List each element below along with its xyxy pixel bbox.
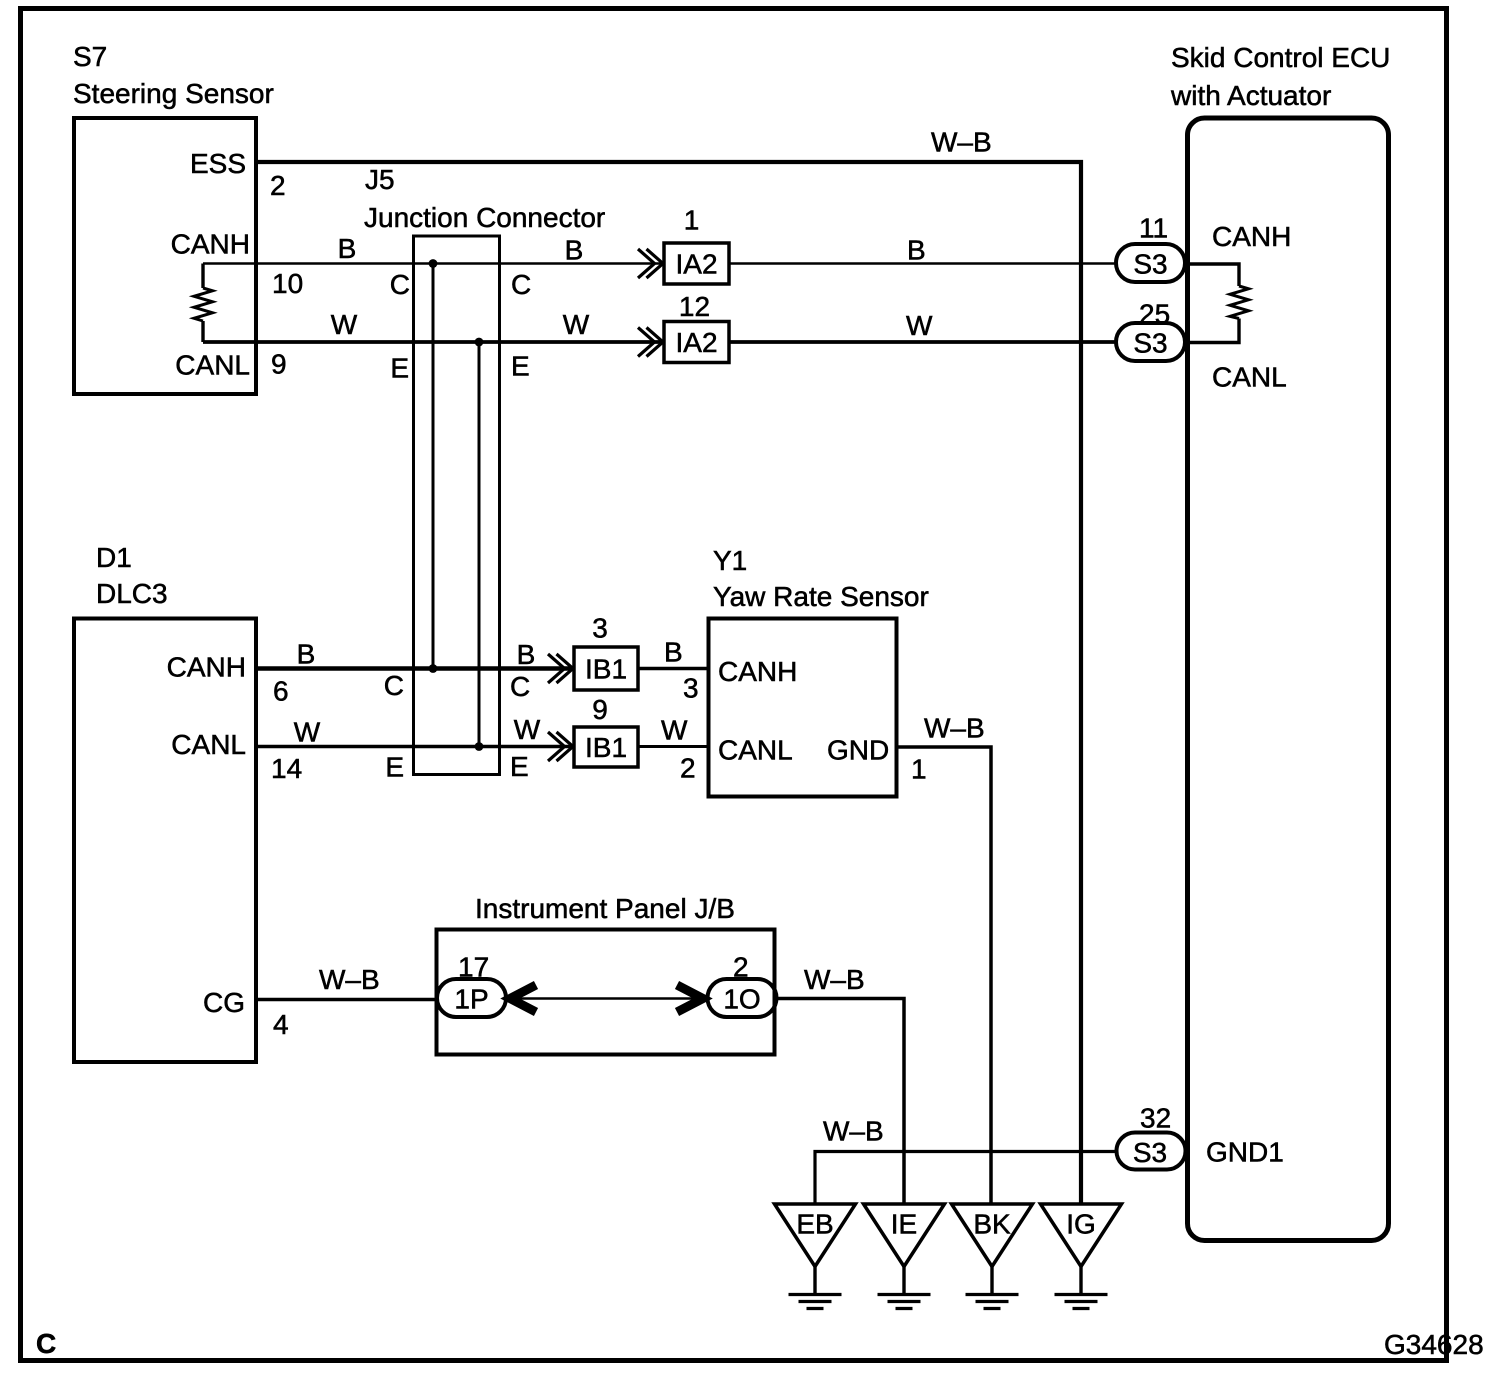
svg-text:14: 14 bbox=[271, 753, 302, 784]
pin CANH 6 of DLC3 bbox=[167, 652, 289, 707]
svg-text:ESS: ESS bbox=[190, 148, 246, 179]
svg-text:B: B bbox=[565, 235, 584, 266]
wire vertical junction B inside J5 bbox=[432, 264, 435, 669]
svg-text:IA2: IA2 bbox=[675, 327, 717, 358]
connector S3 pin 32 bbox=[1117, 1103, 1186, 1170]
connector IB1 pin 9 bbox=[574, 694, 638, 767]
svg-text:W: W bbox=[661, 715, 688, 746]
connector IA2 pin 12 bbox=[664, 291, 729, 363]
svg-text:IG: IG bbox=[1066, 1209, 1096, 1240]
svg-text:Junction Connector: Junction Connector bbox=[364, 202, 605, 233]
wire B from IA2-1 to S3-11 bbox=[729, 262, 1116, 265]
svg-text:B: B bbox=[517, 639, 536, 670]
svg-text:25: 25 bbox=[1139, 299, 1170, 330]
connector 1O pin 2 bbox=[708, 952, 777, 1018]
svg-text:W: W bbox=[514, 714, 541, 745]
svg-text:4: 4 bbox=[273, 1009, 289, 1040]
svg-text:S7: S7 bbox=[73, 41, 107, 72]
svg-text:CANL: CANL bbox=[171, 729, 246, 760]
svg-text:2: 2 bbox=[270, 170, 286, 201]
splice chevron into IB1-3 bbox=[548, 654, 573, 683]
svg-text:9: 9 bbox=[592, 694, 608, 725]
svg-text:C: C bbox=[36, 1328, 56, 1359]
svg-text:W: W bbox=[563, 309, 590, 340]
splice chevron into IA2-12 bbox=[638, 328, 663, 357]
connector IB1 pin 3 bbox=[574, 613, 638, 691]
svg-text:W–B: W–B bbox=[924, 713, 985, 744]
svg-text:W: W bbox=[331, 309, 358, 340]
svg-text:Y1: Y1 bbox=[713, 545, 747, 576]
svg-text:E: E bbox=[390, 353, 409, 384]
wire B from IB1-3 to Y1 bbox=[638, 667, 709, 671]
svg-text:E: E bbox=[511, 351, 530, 382]
arrow right at 1O bbox=[677, 985, 703, 1012]
wire W from IA2-12 to S3-25 bbox=[729, 340, 1116, 344]
svg-text:CANH: CANH bbox=[167, 652, 246, 683]
svg-text:W–B: W–B bbox=[319, 964, 380, 995]
wire W from IB1-9 to Y1 bbox=[638, 745, 709, 748]
svg-text:IA2: IA2 bbox=[675, 249, 717, 280]
svg-text:W–B: W–B bbox=[931, 127, 992, 158]
svg-text:12: 12 bbox=[679, 291, 710, 322]
svg-text:3: 3 bbox=[683, 673, 699, 704]
pin CANL 14 of DLC3 bbox=[171, 729, 302, 784]
wire W CANL row from S7 resistor to IA2 bbox=[203, 340, 664, 344]
svg-text:C: C bbox=[390, 269, 410, 300]
svg-text:CANL: CANL bbox=[718, 735, 793, 766]
connector S3 pin 25 bbox=[1116, 299, 1185, 362]
svg-text:1: 1 bbox=[684, 205, 700, 236]
svg-text:J5: J5 bbox=[365, 164, 395, 195]
svg-text:1O: 1O bbox=[723, 984, 760, 1015]
svg-text:BK: BK bbox=[973, 1209, 1011, 1240]
svg-text:Instrument Panel J/B: Instrument Panel J/B bbox=[475, 893, 735, 924]
connector S3 pin 11 bbox=[1116, 213, 1185, 283]
wire W from DLC3 to IB1-9 bbox=[256, 745, 574, 749]
ground IE bbox=[864, 1204, 945, 1309]
component D1 DLC3 box bbox=[74, 542, 256, 1062]
svg-text:CANH: CANH bbox=[1212, 221, 1291, 252]
wire B CANH row from S7 resistor to IA2 bbox=[203, 262, 664, 265]
component Instrument Panel J/B box bbox=[437, 893, 775, 1055]
svg-text:S3: S3 bbox=[1133, 328, 1167, 359]
svg-text:S3: S3 bbox=[1133, 249, 1167, 280]
junction dot B bottom bbox=[429, 664, 438, 673]
svg-text:G34628: G34628 bbox=[1384, 1329, 1484, 1360]
svg-text:CANH: CANH bbox=[718, 656, 797, 687]
svg-text:11: 11 bbox=[1139, 213, 1168, 244]
junction dot B top bbox=[429, 259, 438, 268]
svg-text:W–B: W–B bbox=[804, 964, 865, 995]
svg-text:9: 9 bbox=[271, 349, 287, 380]
junction dot W bottom bbox=[475, 742, 484, 751]
wire inside J/B from 1P to 1O bbox=[506, 997, 708, 1000]
svg-text:C: C bbox=[510, 671, 530, 702]
svg-text:S3: S3 bbox=[1133, 1137, 1167, 1168]
svg-text:C: C bbox=[511, 269, 531, 300]
svg-text:EB: EB bbox=[796, 1209, 833, 1240]
wire W-B from S7 ESS to IG ground (net W-B) bbox=[258, 162, 1081, 1204]
wire W-B from 1O to IE ground bbox=[777, 999, 905, 1205]
component S7 Steering Sensor box bbox=[73, 41, 274, 394]
svg-text:CANL: CANL bbox=[175, 350, 250, 381]
arrow left at 1P bbox=[510, 985, 536, 1012]
connector 1P pin 17 bbox=[437, 952, 506, 1018]
svg-text:W: W bbox=[294, 717, 321, 748]
svg-text:W: W bbox=[906, 310, 933, 341]
ground IG bbox=[1041, 1204, 1122, 1309]
svg-text:Yaw Rate Sensor: Yaw Rate Sensor bbox=[713, 581, 929, 612]
connector IA2 pin 1 bbox=[664, 205, 729, 285]
svg-text:B: B bbox=[907, 235, 926, 266]
svg-text:1P: 1P bbox=[454, 984, 488, 1015]
wire W-B from Y1 GND to BK ground bbox=[897, 747, 992, 1204]
svg-text:CANL: CANL bbox=[1212, 362, 1287, 393]
resistor term inside ECU bbox=[1188, 264, 1249, 343]
component Y1 Yaw Rate Sensor box bbox=[709, 545, 929, 797]
ground BK bbox=[952, 1204, 1033, 1309]
svg-text:E: E bbox=[510, 751, 529, 782]
wire B from DLC3 to IB1-3 bbox=[256, 666, 574, 671]
svg-text:2: 2 bbox=[680, 753, 696, 784]
wire ground bus from EB to S3-32 bbox=[815, 1152, 1118, 1205]
svg-text:E: E bbox=[385, 752, 404, 783]
svg-text:CG: CG bbox=[203, 987, 245, 1018]
svg-text:Steering Sensor: Steering Sensor bbox=[73, 78, 274, 109]
svg-text:D1: D1 bbox=[96, 542, 132, 573]
splice chevron into IA2-1 bbox=[638, 249, 663, 278]
svg-text:GND: GND bbox=[827, 735, 889, 766]
splice chevron into IB1-9 bbox=[548, 732, 573, 761]
svg-text:B: B bbox=[297, 639, 316, 670]
svg-text:10: 10 bbox=[272, 268, 303, 299]
svg-text:GND1: GND1 bbox=[1206, 1137, 1284, 1168]
pin CG 4 of DLC3 bbox=[203, 987, 289, 1040]
svg-text:6: 6 bbox=[273, 676, 289, 707]
svg-text:with Actuator: with Actuator bbox=[1170, 80, 1331, 111]
svg-text:B: B bbox=[664, 637, 683, 668]
resistor R term inside S7 bbox=[194, 264, 213, 343]
svg-text:1: 1 bbox=[911, 754, 927, 785]
svg-text:DLC3: DLC3 bbox=[96, 578, 168, 609]
component Skid Control ECU box bbox=[1170, 42, 1390, 1241]
svg-text:B: B bbox=[338, 233, 357, 264]
pin CANH 10 of S7 bbox=[171, 229, 304, 300]
junction connector J5 box bbox=[364, 164, 605, 775]
pin CANL 9 of S7 bbox=[175, 349, 286, 381]
svg-text:17: 17 bbox=[458, 952, 489, 983]
junction dot W top bbox=[475, 338, 484, 347]
svg-text:C: C bbox=[384, 670, 404, 701]
svg-text:IB1: IB1 bbox=[585, 654, 627, 685]
pin ESS of S7 bbox=[190, 148, 286, 201]
svg-text:Skid Control ECU: Skid Control ECU bbox=[1171, 42, 1390, 73]
svg-text:IE: IE bbox=[891, 1209, 917, 1240]
wire CG W-B from DLC3 to 1P bbox=[256, 998, 437, 1002]
svg-text:2: 2 bbox=[733, 952, 749, 983]
svg-text:IB1: IB1 bbox=[585, 732, 627, 763]
svg-text:3: 3 bbox=[592, 613, 608, 644]
wire vertical junction W inside J5 bbox=[478, 342, 481, 747]
svg-text:W–B: W–B bbox=[823, 1116, 884, 1147]
ground EB bbox=[775, 1204, 856, 1309]
svg-text:CANH: CANH bbox=[171, 229, 250, 260]
svg-text:32: 32 bbox=[1140, 1103, 1171, 1134]
